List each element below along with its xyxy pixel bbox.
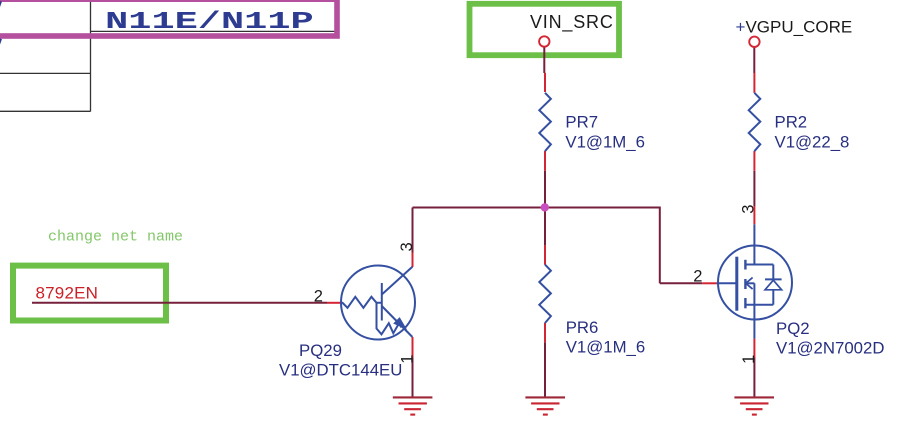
svg-text:2: 2	[314, 288, 323, 306]
svg-text:change net name: change net name	[48, 229, 183, 246]
svg-text:V1@1M_6: V1@1M_6	[565, 132, 645, 151]
svg-text:V1@DTC144EU: V1@DTC144EU	[279, 361, 402, 380]
svg-text:V1@2N7002D: V1@2N7002D	[776, 339, 884, 358]
svg-text:3: 3	[398, 242, 416, 251]
svg-text:VIN_SRC: VIN_SRC	[530, 12, 614, 33]
svg-text:+VGPU_CORE: +VGPU_CORE	[736, 18, 853, 37]
svg-text:V1@22_8: V1@22_8	[775, 132, 850, 151]
svg-text:N11E/N11P: N11E/N11P	[105, 8, 314, 35]
svg-text:PQ2: PQ2	[776, 319, 810, 338]
svg-text:PR7: PR7	[565, 113, 598, 132]
svg-text:8792EN: 8792EN	[36, 283, 99, 302]
svg-text:PR6: PR6	[566, 318, 599, 337]
svg-text:3: 3	[739, 205, 757, 214]
svg-text:2: 2	[693, 268, 702, 286]
svg-text:PQ29: PQ29	[299, 341, 342, 360]
svg-text:1: 1	[398, 355, 416, 364]
svg-text:V1@1M_6: V1@1M_6	[566, 337, 646, 356]
svg-text:1: 1	[740, 355, 758, 364]
svg-text:PR2: PR2	[775, 113, 808, 132]
